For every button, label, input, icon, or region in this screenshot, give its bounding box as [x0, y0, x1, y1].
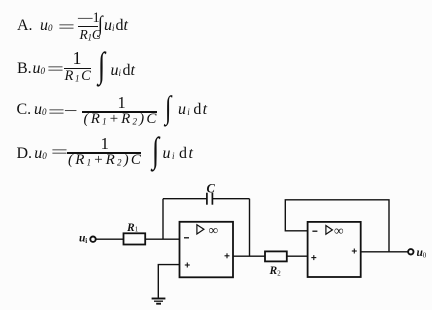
op-amp U1 plus input pin — [185, 263, 190, 268]
svg-text:0: 0 — [423, 252, 427, 260]
wire top left to capacitor — [163, 198, 207, 200]
label C — [207, 181, 216, 195]
op-amp U2 triangle and infinity symbol — [326, 223, 344, 238]
op-amp U1 triangle and infinity symbol — [197, 223, 218, 238]
node ui input terminal — [90, 237, 95, 242]
wire U2 output to terminal — [361, 251, 409, 253]
svg-text:C: C — [207, 181, 216, 195]
wire U1 plus input to ground — [158, 265, 179, 298]
wire input to R1 — [96, 238, 124, 240]
label R2 — [269, 265, 282, 277]
wire capacitor to right vertical — [212, 198, 249, 200]
svg-text:∞: ∞ — [209, 223, 219, 238]
wire U1 output to R2 — [233, 255, 265, 257]
node u0 output terminal — [408, 249, 413, 254]
label u0 — [417, 247, 427, 260]
op-amp U1 output plus pin — [225, 253, 230, 258]
resistor R2 — [265, 251, 287, 261]
wire R2 to op-amp U2 plus input — [287, 255, 308, 257]
svg-text:1: 1 — [135, 226, 139, 234]
label R1 — [126, 222, 139, 234]
wire right vertical down to op-amp U1 output — [249, 199, 251, 257]
op-amp U2 output plus pin — [352, 249, 357, 254]
svg-text:2: 2 — [277, 269, 281, 277]
svg-text:R: R — [126, 222, 135, 234]
svg-text:i: i — [85, 237, 87, 245]
op-amp U2 box — [308, 222, 361, 277]
wire R1 to op-amp U1 inverting input, node A junction — [145, 238, 179, 240]
wire node A up to capacitor — [162, 199, 164, 240]
wire U2 feedback loop output to minus input — [285, 200, 389, 252]
resistor R1 — [124, 233, 146, 244]
capacitor C — [207, 193, 213, 205]
op-amp U2 minus pin — [312, 230, 317, 232]
ground — [152, 299, 166, 304]
op-amp U1 box — [180, 222, 234, 277]
op-amp U2 plus input pin — [311, 255, 316, 260]
op-amp U1 minus pin — [184, 237, 189, 239]
svg-text:R: R — [269, 265, 278, 277]
svg-text:∞: ∞ — [334, 223, 344, 238]
label ui — [79, 233, 87, 246]
